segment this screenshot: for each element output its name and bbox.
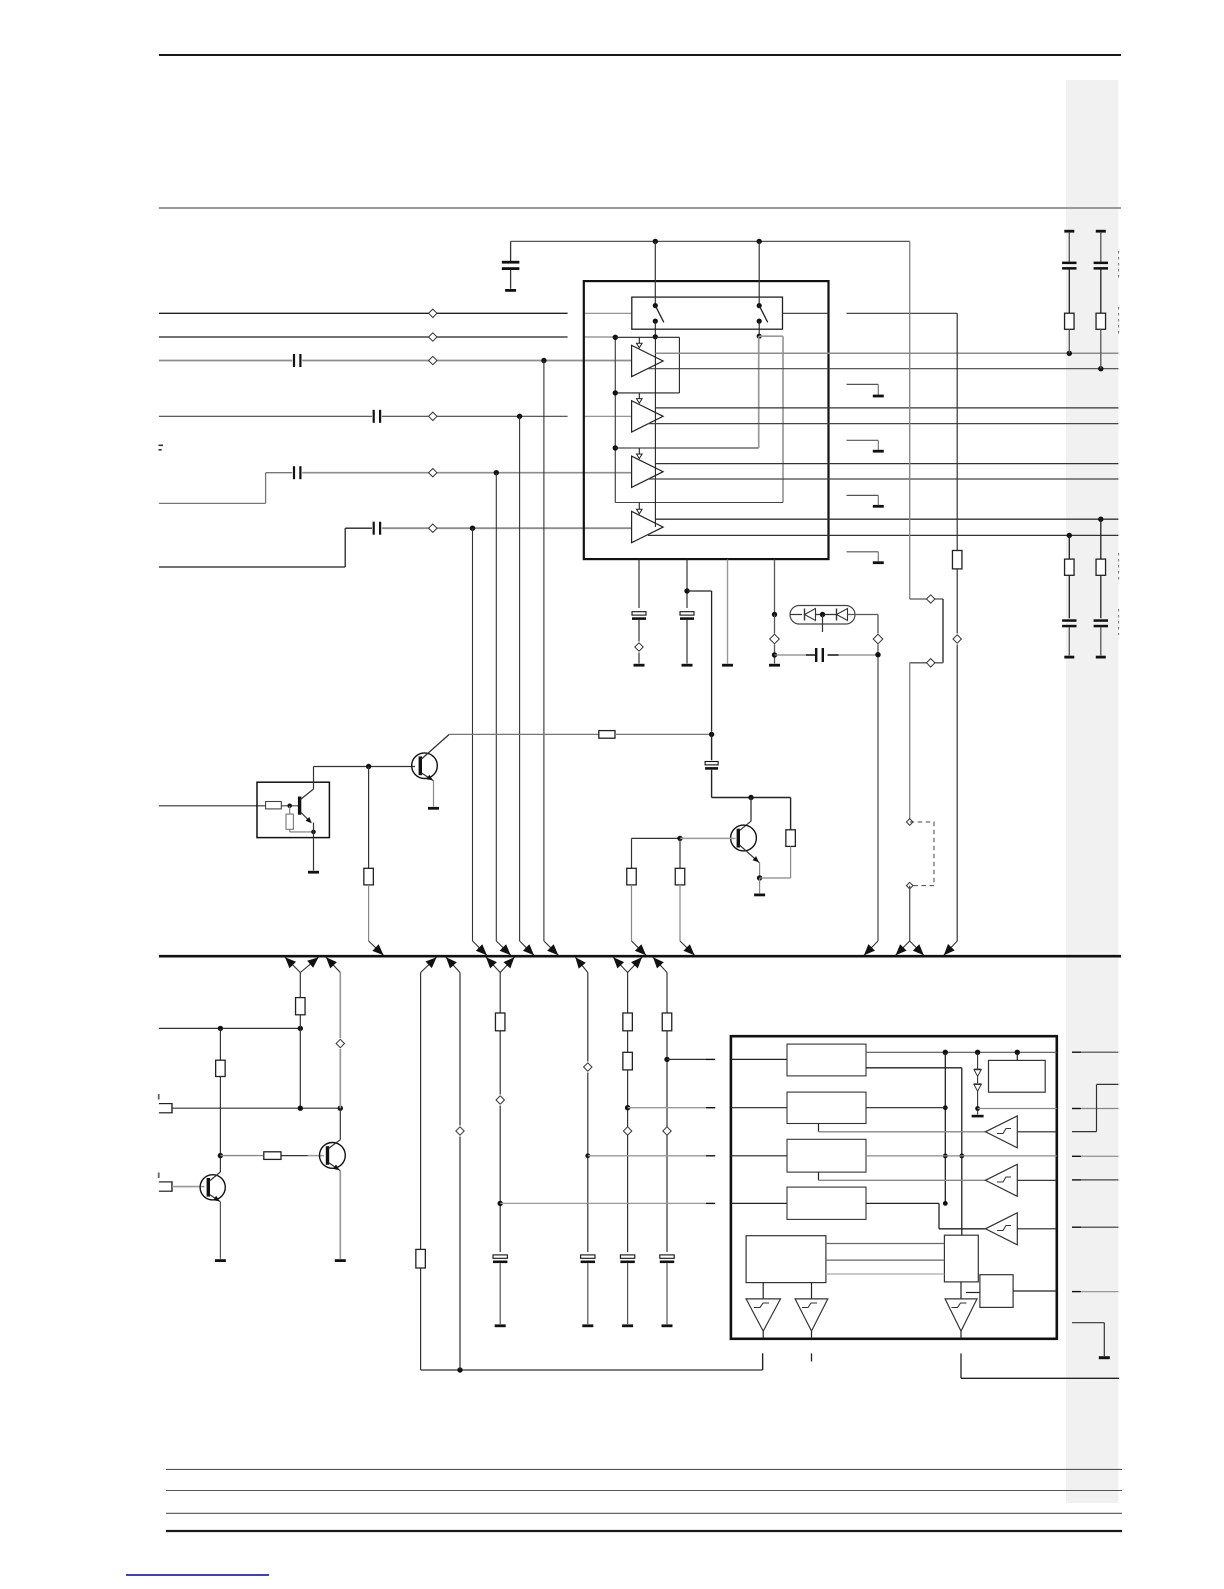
node on top rail left [653,239,658,244]
capacitor C7 electrolytic [680,612,694,615]
wire [1100,233,1102,262]
dashed service link [910,822,934,886]
ground bar below C1 [505,289,516,292]
wire [1068,233,1070,262]
output stage block B7 [944,1235,978,1282]
down buffer DT1 [762,1283,764,1299]
node output row1 upper [1067,351,1072,356]
U2 input wire 2 [731,1107,787,1109]
wire stub d continues to ground [774,615,776,634]
wire Q2 collector [750,798,752,822]
function block B3 [787,1139,866,1172]
ground bar [873,450,884,453]
wire input line 1 [159,312,568,314]
wire right column x909 from top rail [909,241,911,599]
footer rule 4 bold [166,1530,1122,1532]
resistor R9 [296,998,306,1015]
node line5 to drop [494,470,499,475]
wire input line 6 left segment [159,566,345,568]
wire feed line A y1028 [159,1027,300,1029]
wire input line 5 left segment [159,502,266,504]
B4 output wire [866,1202,939,1204]
gain arrow into buffer A1 [638,337,640,343]
ground bar col D [622,1324,633,1327]
test point diamond line1 [429,309,437,317]
B1 output wire [866,1051,1057,1053]
wire R5 to node [615,733,712,735]
wire col D to U2 pin2 [628,1107,706,1109]
tiny connector mark left edge [159,445,164,447]
node line3 to drop [541,358,546,363]
U2 pin stub below DT3 [960,1353,962,1378]
output wire row2 upper [655,407,1118,409]
node output row4 lower [1067,533,1072,538]
wire DT3 pin to right [961,1377,1119,1379]
wire supply top rail [511,240,910,242]
wire U1 pin row0 to right [783,312,829,314]
wire line 5 after cap gray [302,472,631,474]
tiny right-edge labels (dashes) [1118,251,1120,278]
ground bar Q2 [754,894,765,897]
transistor Q2 [731,825,757,851]
small block B5 top right [989,1060,1046,1092]
wire B8 left [966,1292,980,1294]
resistor R16 [662,1013,672,1031]
resistor R12 [416,1249,426,1268]
U2 input wire 1 [731,1058,787,1060]
wire to ground stub [847,551,879,553]
test point diamond line6 [429,524,437,532]
output wire row2 lower [648,423,1118,425]
wire S1 output [654,321,656,337]
wire x220 branch [219,1028,221,1060]
wire col E to U2 pin1 [667,1058,706,1060]
function block B2 [787,1092,866,1123]
capacitor C8 series [815,648,817,662]
wire x909 to bus [909,886,911,941]
node output row1 lower [1098,366,1103,371]
wire stub below U1 d [774,560,776,615]
node base drop [366,764,371,769]
diode D1b [837,609,848,621]
B1 second output wire [866,1067,962,1069]
wire drop from line5 [495,473,497,941]
wire input to Q3 [159,805,266,807]
buffer amplifier A3 [632,456,664,487]
node branch at stub b [684,588,689,593]
right gray band [1066,80,1118,1503]
wire R11 to T2 base [281,1155,308,1157]
capacitor [1094,619,1108,622]
test point diamond line2 [429,333,437,341]
wire bus to R9 [285,957,300,972]
ground bar [873,395,884,398]
wire [1100,329,1102,368]
resistor R5 [599,731,615,739]
capacitor C13 [660,1255,674,1258]
wire drop from line3 [543,361,545,942]
buffer amplifier A2 [632,401,664,432]
capacitor C4 on line 5 [293,466,295,479]
wire input line 4 [159,415,372,417]
footer link underline blue [126,1574,269,1576]
second rule gray [159,207,1121,209]
wire column x957 from U1 pin [956,313,958,550]
U2 out wire y1227 [1072,1226,1081,1228]
output wire row4 upper [655,518,1118,520]
wire [1100,575,1102,618]
B3 output wire [866,1155,1057,1157]
wire [1100,269,1102,313]
bottom return wire [421,1369,763,1371]
ground bar right bottom [1099,1356,1110,1359]
U2 pin stub below DT1 [762,1353,764,1370]
resistor R6 [627,868,637,885]
wire R2 to base node [281,805,299,807]
resistor R1 [952,551,962,569]
wire lower RC x1100 [1100,519,1102,559]
column B x500 from bus [486,957,500,972]
output wire row3 lower [648,478,1118,480]
K2 output wire [1017,1179,1057,1181]
resistor R8 [786,830,796,847]
wire stub below U1 c gray [727,560,729,664]
switch2 branch to row4 rail [759,335,783,337]
down buffer DT2 [811,1283,813,1299]
footer rule 1 [166,1468,1122,1470]
U2 out wire y1291 [1072,1291,1081,1293]
wire B8 right to edge [1013,1290,1057,1292]
wire switch feed left [654,241,656,305]
B2 bottom jog to comparator [818,1124,820,1132]
capacitor C11 [581,1255,595,1258]
transistor T2 [320,1143,346,1169]
return wire riser to DT1 pin [762,1353,764,1370]
jog vertical [942,599,944,663]
wire line 6 riser [344,528,346,567]
wire stub below U1 a [638,560,640,609]
transistor Q3 [298,797,301,815]
switch box inside U1 [632,297,783,329]
ground bar Q1 [428,807,439,810]
wire line 5 riser [265,473,267,504]
wire to ground stub [847,494,879,496]
jog bottom segment [910,662,943,664]
resistor R10 [216,1060,226,1076]
function block B4 [787,1187,866,1219]
column D x627 from bus [613,957,627,972]
Q1 emitter wire [422,773,434,781]
bus wires B6-B7 [826,1243,945,1245]
node cap drop [709,732,714,737]
resistor R2 inside Q3 [266,802,282,809]
resistor [1096,559,1106,575]
resistor R14 [623,1013,633,1031]
node opto left [772,612,777,617]
wire Q2 base [632,837,681,839]
wire to Q2 collector node [712,797,791,799]
wire [1068,627,1070,655]
wire x909 lower [909,663,911,822]
signal processor U2 box [731,1036,1057,1339]
node on top rail right [757,239,762,244]
capacitor C3 on line 4 [373,410,375,423]
wire B5 top feed [1016,1052,1018,1060]
row1 feed wire [615,336,679,338]
diamond below C6 [635,643,643,651]
wire lower RC x1069 [1068,535,1070,559]
resistor R13 [495,1013,505,1031]
ground bar below C6 [634,664,645,667]
ground bar [1096,656,1106,659]
wire [1100,627,1102,655]
down buffer DT3 [960,1282,962,1299]
output wire row4 lower [648,534,1118,536]
wire collector resistor [790,798,792,830]
ground bar below stub d [769,664,780,667]
switch2 drop to row3 [758,336,760,448]
ground bar col B [495,1324,506,1327]
U2 out wire to ground [1072,1322,1104,1324]
T2 collector wire [329,1140,341,1149]
connector pin J1b [159,1181,172,1183]
wire line 6 after cap gray [382,527,632,529]
U2 out wire y1180 [1072,1179,1081,1181]
row3 feed wire [615,447,758,449]
wire switch feed right [758,241,760,305]
U2 out wire y1052 [1072,1051,1081,1053]
B3 bottom jog to comparator 2 [818,1172,820,1180]
row4 feed wire [615,502,783,504]
output wire row1 upper gray [655,352,1118,354]
U2 out wire y1108 [1072,1108,1081,1110]
wire [1068,329,1070,353]
row1 jog down [678,337,680,393]
top rule [159,54,1121,56]
wire x300 down to y1108 [299,1028,301,1108]
connector pin J1a [159,1103,172,1105]
K1 output wire [1017,1131,1057,1133]
wire Q3 to Q1 base [314,766,416,768]
gain arrow into buffer A4 [638,503,640,510]
wire J1a y1108 [172,1107,340,1109]
center vertical through buffers [654,337,656,527]
vertical V1 [944,1052,946,1203]
gain arrow into buffer A3 [638,448,640,454]
resistor R11 [264,1152,281,1160]
node line6 to drop [470,526,475,531]
node line4 to drop [517,414,522,419]
wire J1b to T1 base [172,1186,205,1188]
ground bar below C7 [682,664,693,667]
wire base resistor a [631,838,633,868]
capacitor C10 [493,1255,507,1258]
wire stub below U1 b [686,560,688,609]
test point diamond line4 [429,412,437,420]
wire to ground stub [847,439,879,441]
wire Q3 emitter to ground [313,823,315,871]
U2 out jog y1131 [1072,1131,1097,1133]
buffer amplifier A4 [632,511,664,542]
output wire row1 lower [648,368,1118,370]
resistor R3 inside Q3 [286,814,293,829]
buffer amplifier A1 [632,345,664,376]
U2 out wire y1156 [1072,1155,1081,1157]
wire Q3 collector up [313,767,315,790]
ground bar zener [972,1115,984,1118]
resistor [1065,559,1075,575]
op-amp array U1 box [584,281,829,559]
row2 feed wire [615,392,679,394]
wire to ground stub [847,383,879,385]
resistor R15 [623,1052,633,1070]
capacitor C12 [620,1255,634,1258]
capacitor C5 on line 6 [373,522,375,535]
wire [1068,269,1070,313]
ground bar T2 [335,1259,346,1262]
resistor [1096,313,1106,329]
footer rule 3 [166,1512,1122,1514]
capacitor [1062,619,1076,622]
T1 emitter wire [210,1195,221,1202]
wire drop from line6 [472,528,474,941]
column x420 from bus [421,957,437,972]
center tap of D1 [820,612,825,617]
footer rule 2 [166,1490,1122,1492]
switch S2 [757,303,762,308]
digital transistor Q3 box [257,782,329,837]
wire zener node to edge [978,1108,1057,1110]
wire input line 3 gray [159,360,292,362]
gain rail inside U1 [614,337,616,503]
ground bar [873,561,884,564]
capacitor C2 on line 3 [293,354,295,367]
wire line 3 after cap [302,360,631,362]
comparator K3 [985,1213,1017,1245]
function block B1 [787,1044,866,1076]
output wire row3 upper [655,463,1118,465]
K3 output wire [1017,1228,1057,1230]
column C x587 from bus [575,957,588,972]
wire node to R4 [368,767,370,869]
resistor R4 [364,868,374,885]
wire input line 2 [159,336,568,338]
Q2 emitter wire [740,845,760,863]
node output row4 upper [1098,517,1103,522]
ground bar col E [662,1324,673,1327]
B2 output wire [866,1107,945,1109]
wire col B to U2 pin4 [500,1202,706,1204]
column E x667 from bus [653,957,667,972]
ground bar top RC x1069 [1064,230,1074,233]
ground bar below stub c [722,664,733,667]
wire R4 to bus [368,885,370,941]
wire drop from line4 [519,416,521,941]
resistor [1065,313,1075,329]
capacitor C6 electrolytic [632,612,646,615]
jog top segment [910,598,943,600]
wire T1 node to R11 [220,1155,263,1157]
capacitor [1094,262,1108,265]
DSP block B6 [746,1236,826,1283]
T1 collector wire [210,1172,221,1181]
wire Q1 collector rail [449,733,599,735]
ground bar col C [582,1324,593,1327]
comparator K2 [985,1164,1017,1196]
U2 input wire 4 [731,1202,787,1204]
resistor R7 [675,868,685,885]
capacitor [1062,262,1076,265]
vertical V2 [961,1068,963,1235]
transistor Q1 [412,753,438,779]
ground bar [873,505,884,508]
column A x460 from bus [446,957,460,972]
wire line 4 after cap [382,415,568,417]
wire S2 output [758,321,760,336]
ground bar top RC x1100 [1096,230,1106,233]
wire [1068,575,1070,618]
ground bar [1064,656,1074,659]
transistor T1 [200,1175,225,1200]
U2 input wire 3 [731,1155,787,1157]
wire bus drop x340 [326,957,340,972]
comparator K1 [985,1116,1017,1148]
test point diamond line3 [429,356,437,364]
diode D1a [790,614,802,616]
diode pair D1 package [790,606,855,625]
wire col C to U2 pin3 [588,1155,706,1157]
small block B8 [980,1275,1013,1308]
test point diamond line5 [429,469,437,477]
wire base resistor b [679,838,681,868]
capacitor C9 electrolytic [711,734,713,760]
zener stack [977,1052,979,1069]
main bus line [159,955,1121,958]
wire D1 right lead [848,614,879,616]
ground bar Q3 [308,871,319,874]
switch S1 [653,303,658,308]
capacitor C1 bypass [510,241,512,261]
Q1 collector wire [422,734,450,759]
wire cap link y655 [775,654,807,656]
ground bar T1 [215,1259,226,1262]
T2 emitter wire [329,1163,341,1171]
gain arrow into buffer A2 [638,393,640,399]
U2 pin stub below DT2 [811,1353,813,1361]
wire right column x878 [877,615,879,634]
